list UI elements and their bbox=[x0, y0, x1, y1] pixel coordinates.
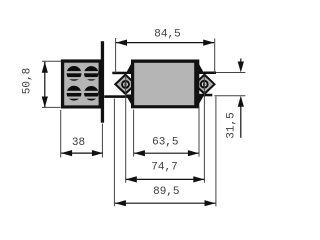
svg-text:38: 38 bbox=[72, 137, 85, 149]
dimension 84,5 arrow left bbox=[116, 40, 127, 46]
dimension 50,8 arrow up bbox=[42, 62, 48, 73]
dimension 63,5 line bbox=[134, 152, 199, 154]
dimension 38 extension line right bbox=[101, 124, 103, 158]
dimension 84,5 extension right bbox=[214, 39, 216, 74]
bracket line top-left bbox=[112, 72, 126, 75]
dimension 84,5 extension left bbox=[115, 38, 117, 73]
dimension 63,5 extension right bbox=[198, 107, 200, 157]
hole centre line left bbox=[125, 76, 127, 183]
dimension 31,5 extension bottom bbox=[214, 95, 245, 97]
dimension 89,5 arrow left bbox=[115, 200, 126, 206]
corner wedge bottom-left bbox=[126, 95, 134, 109]
bracket line bottom-right bbox=[198, 94, 212, 97]
svg-text:31,5: 31,5 bbox=[226, 112, 238, 138]
left tab screw hole bbox=[121, 80, 130, 89]
front view housing face bbox=[64, 63, 98, 106]
corner wedge top-left bbox=[126, 60, 134, 75]
dimension 38 arrow right bbox=[92, 150, 103, 156]
svg-text:50,8: 50,8 bbox=[22, 68, 34, 94]
dimension 31,5 extension top bbox=[216, 72, 245, 74]
dimension 74,7 line bbox=[126, 178, 205, 180]
svg-text:63,5: 63,5 bbox=[152, 136, 178, 148]
dimension 50,8 line bbox=[44, 62, 46, 108]
dimension 84,5 line bbox=[116, 42, 214, 44]
bushing top-left bbox=[67, 66, 82, 81]
side view right tab inner face bbox=[196, 76, 213, 92]
svg-text:74,7: 74,7 bbox=[151, 162, 177, 174]
dimension 50,8 extension line bottom bbox=[42, 106, 61, 108]
filter body face bbox=[134, 63, 194, 105]
side view left mounting tab diamond bbox=[114, 73, 137, 95]
bushing slot stripes row 1 bbox=[66, 71, 98, 73]
front view housing outline bbox=[61, 59, 102, 108]
dimension 50,8 extension line top bbox=[42, 60, 61, 62]
side view right mounting tab diamond bbox=[193, 73, 216, 95]
dimension 74,7 arrow left bbox=[126, 176, 137, 182]
dimension 50,8 arrow down bbox=[42, 97, 48, 108]
dimension 38 extension line left bbox=[60, 110, 62, 158]
side view left tab inner face bbox=[117, 76, 134, 92]
dimension 89,5 line bbox=[115, 202, 216, 204]
dimension 63,5 arrow left bbox=[134, 150, 145, 156]
dimension 63,5 extension left bbox=[133, 110, 135, 157]
filter body outline bbox=[131, 60, 199, 109]
bushing top-right bbox=[84, 66, 99, 81]
dimension 84,5 arrow right bbox=[203, 40, 214, 46]
mounting panel edge bbox=[101, 41, 104, 123]
corner wedge bottom-right bbox=[197, 95, 205, 109]
bracket line bottom-left bbox=[104, 95, 131, 98]
bushing bottom-right bbox=[84, 86, 99, 101]
svg-text:84,5: 84,5 bbox=[154, 28, 180, 40]
dimension 31,5 lower arrow and leader bbox=[238, 96, 244, 107]
dimension 38 arrow left bbox=[61, 150, 72, 156]
bushing bottom-left bbox=[67, 86, 82, 101]
bushing slot stripes row 2 bbox=[66, 91, 98, 93]
dimension 31,5 upper arrow bbox=[240, 59, 242, 64]
hole centre line right bbox=[203, 76, 205, 183]
dimension 89,5 arrow right bbox=[205, 200, 216, 206]
corner wedge top-right bbox=[197, 60, 205, 75]
dimension 89,5 extension left bbox=[113, 99, 115, 207]
right tab screw hole bbox=[200, 80, 209, 89]
bracket line top-right bbox=[204, 72, 217, 75]
dimension 38 line bbox=[61, 152, 103, 154]
dimension 63,5 arrow right bbox=[188, 150, 199, 156]
dimension 89,5 extension right bbox=[215, 97, 217, 207]
svg-text:89,5: 89,5 bbox=[153, 186, 179, 198]
dimension 74,7 arrow right bbox=[193, 176, 204, 182]
